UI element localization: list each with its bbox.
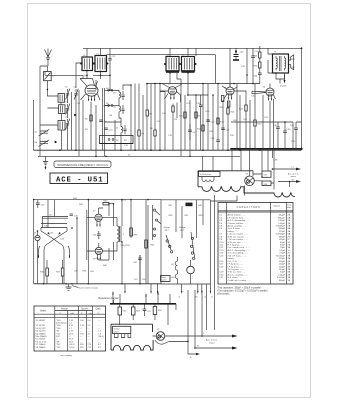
wire mid left rail — [33, 200, 35, 284]
IF frequency label box — [54, 161, 111, 168]
wire mains lead L2 — [202, 335, 232, 337]
valve V5 resistance — [156, 332, 165, 341]
svg-text:+0: +0 — [204, 297, 206, 299]
switch contacts edge set — [153, 209, 155, 211]
variable capacitor C1a — [39, 129, 50, 136]
antenna A — [45, 49, 52, 67]
power label arrow — [284, 75, 286, 81]
wire right rail — [301, 48, 303, 149]
capacitor C33 — [258, 46, 262, 84]
wire osc section verticals — [45, 63, 110, 88]
wire switch branch S4 — [105, 89, 120, 91]
wire heater bottom link — [211, 186, 245, 202]
resistance dial lamps box — [113, 326, 131, 333]
valve table frame — [34, 306, 106, 351]
IF transformer can IFT1 — [166, 57, 179, 72]
wire extra stubs — [96, 79, 181, 156]
ground chassis mid — [66, 284, 72, 291]
transformer T2 winding — [117, 226, 121, 242]
svg-text:†Two capacitors, 0.0315µF + 0.: †Two capacitors, 0.0315µF + 0.0315µF in … — [217, 289, 268, 292]
capacitor C37 box — [262, 171, 271, 177]
capacitor C20 — [206, 120, 210, 150]
svg-text:-265: -265 — [194, 297, 198, 299]
wire output loop — [99, 204, 118, 260]
resistor R6 — [154, 130, 156, 136]
capacitor C22 — [221, 128, 225, 130]
valve V5 rectifier — [245, 176, 255, 186]
wire splitter bends — [39, 243, 70, 284]
capacitor C40 — [36, 200, 40, 208]
wire top HT rail — [83, 47, 302, 49]
output transformer T1 — [273, 54, 289, 73]
resistor R23 — [245, 105, 247, 111]
wire rail x40 — [40, 66, 47, 156]
capacitor C17 — [188, 124, 192, 140]
wire panel bottom stubs — [182, 195, 215, 330]
resistance heater outline — [111, 324, 153, 350]
svg-text:mains: mains — [209, 343, 216, 345]
wire chassis thick right — [231, 148, 302, 150]
capacitor C49 — [138, 255, 142, 284]
trimmer C3 — [66, 89, 70, 100]
mid stub arrows — [124, 291, 158, 294]
aerial coil pack box 1 — [58, 94, 65, 103]
valve V8 output bottom — [95, 247, 102, 254]
resistor R8 — [172, 106, 174, 112]
mid coil L11 — [119, 104, 125, 114]
valve V2 pins — [165, 94, 175, 100]
valve table rows — [36, 320, 104, 349]
svg-text:+0: +0 — [178, 297, 180, 299]
resistor R7 — [138, 130, 140, 136]
valve V1 pins — [81, 94, 101, 100]
resistor R10 — [184, 112, 186, 118]
wire switch bus S1 — [38, 155, 240, 157]
svg-text:C37: C37 — [264, 175, 267, 177]
mid coil L12 — [121, 124, 127, 135]
dial lamp castellation — [202, 177, 214, 182]
resistor R25 — [259, 62, 261, 68]
capacitor C18 — [196, 95, 208, 150]
svg-text:Valve: Valve — [40, 310, 47, 313]
svg-text:mains: mains — [291, 176, 296, 178]
capacitor C45 — [70, 214, 73, 216]
title box ACE U51 — [50, 173, 108, 184]
wire chassis line — [34, 149, 302, 151]
wire resistance to mains — [153, 336, 203, 344]
coil L18 — [175, 274, 177, 284]
svg-text:‡Electrolytic.: ‡Electrolytic. — [217, 292, 230, 295]
switch contacts left set — [166, 240, 168, 242]
valve V3 detector — [226, 87, 234, 95]
resistor R42 — [103, 203, 109, 205]
can side pins — [80, 63, 197, 66]
bottom bus thick — [110, 303, 176, 305]
capacitor C48 — [97, 208, 101, 247]
svg-text:Screen: Screen — [81, 308, 89, 311]
voltage test arrows — [181, 291, 211, 294]
valve V2 IF amplifier — [168, 87, 176, 95]
svg-text:ACE - U51: ACE - U51 — [56, 176, 104, 184]
svg-text:Cath.: Cath. — [96, 308, 102, 311]
capacitor block C30a dark — [186, 203, 193, 207]
svg-text:(Oscillator)1.2: (Oscillator)1.2 — [56, 322, 73, 325]
splitter cross arrows — [47, 232, 61, 235]
wire mid top rail — [34, 199, 161, 201]
splitter bend arrows — [38, 255, 70, 258]
resistor R5 — [146, 110, 148, 116]
capacitor C46 link — [41, 224, 67, 228]
aerial coil pack box 2 — [59, 105, 66, 114]
trimmer C4 — [66, 104, 70, 115]
bottom components R52 — [153, 307, 157, 315]
capacitor table footnotes — [217, 286, 268, 295]
svg-text:Connected to chassis: Connected to chassis — [79, 287, 98, 290]
wire mid column — [110, 75, 143, 150]
capacitor table rows — [219, 214, 290, 282]
node E stub — [188, 340, 196, 355]
wire L16 top — [231, 121, 278, 123]
oscillator coil can L6 — [95, 56, 107, 72]
wire HT rail mid — [45, 71, 260, 84]
capacitor C13 — [251, 53, 255, 84]
capacitor C2 box — [44, 72, 52, 81]
svg-text:A.C. or D.C.: A.C. or D.C. — [206, 339, 218, 342]
svg-text:+0: +0 — [211, 297, 213, 299]
bottom components C51 — [143, 304, 147, 316]
valve V4 pins — [269, 95, 276, 100]
capacitor C30 electrolytic — [235, 48, 237, 54]
wire switch branch S5 — [105, 105, 120, 107]
trimmer C6 — [68, 89, 79, 151]
can bottom dots — [86, 70, 101, 73]
switch section box — [100, 136, 134, 144]
wire section divider — [247, 48, 253, 83]
resistor R14 — [227, 108, 229, 114]
svg-text:*Two capacitors, 350µF + 3: *Two capacitors, 350µF + 350µF in parall… — [217, 286, 262, 289]
wire V4 surround — [246, 84, 274, 149]
capacitor C12 — [108, 48, 112, 75]
svg-text:switch: switch — [162, 279, 167, 282]
valve V3 pins — [224, 94, 232, 99]
svg-text:A.C. or D.C.: A.C. or D.C. — [288, 173, 299, 176]
wire mains lead N — [278, 182, 296, 188]
valve V3b triode — [35, 235, 40, 240]
trimmer C5 — [66, 119, 70, 130]
wire phase splitter cross — [41, 228, 67, 244]
resistor R37 — [61, 268, 64, 276]
wire mid bottom stubs — [125, 284, 158, 292]
svg-text:lamps: lamps — [114, 331, 119, 333]
wire bottom links — [168, 304, 176, 325]
wire det section — [107, 48, 224, 150]
lamp component — [187, 266, 195, 274]
capacitor C35 — [276, 122, 285, 149]
valve V7 pins — [97, 221, 100, 226]
wire mid bottom bus — [34, 283, 161, 285]
mid coil L10 — [119, 90, 125, 100]
wire mains verticals — [188, 290, 202, 348]
switch contacts right set — [191, 237, 193, 239]
capacitor C9 — [99, 120, 103, 122]
svg-text:CAPACITORS: CAPACITORS — [237, 205, 261, 209]
wire left rail x33 — [33, 100, 35, 150]
wire heater to right — [253, 174, 274, 183]
svg-text:adj.2: adj.2 — [180, 229, 184, 231]
wire det out couplers — [185, 95, 196, 156]
svg-text:adj.1: adj.1 — [165, 229, 169, 231]
bottom components R51 — [132, 307, 136, 315]
aerial coil pack box 3 — [58, 121, 65, 131]
svg-text:2 watts: 2 watts — [280, 85, 287, 88]
oscillator coil can L5 — [82, 57, 93, 71]
capacitor C25 — [294, 122, 301, 149]
resistor R36 — [46, 268, 49, 276]
svg-text:INTERMEDIATE FREQUENCY 470 KC/: INTERMEDIATE FREQUENCY 470 KC/S — [57, 163, 108, 167]
wire coil links — [105, 106, 122, 123]
valve V8 pins — [97, 254, 100, 259]
wire coil feeds — [40, 89, 83, 156]
svg-text:To Dial: To Dial — [114, 329, 120, 331]
svg-text:R32a: R32a — [199, 215, 205, 217]
junction blobs coilpack — [74, 114, 76, 116]
wire IF can feeds — [170, 48, 188, 95]
capacitor C21 — [216, 140, 220, 150]
speaker — [289, 55, 294, 70]
ground chassis symbol — [43, 156, 48, 168]
wire V3 surround — [230, 48, 246, 150]
capacitor table frame — [218, 203, 293, 285]
wire mid tubes bus — [86, 210, 88, 260]
switch panel inner verticals — [176, 200, 203, 238]
svg-text:Values: Values — [274, 206, 281, 208]
valve V7 output top — [95, 214, 102, 221]
wire mains lead N2 — [195, 347, 232, 349]
resistor R38 box — [262, 181, 271, 186]
coil L17 — [175, 257, 177, 274]
bottom up-arrows — [113, 292, 170, 304]
wire mains lead L — [273, 168, 297, 170]
resistor R12 — [202, 125, 204, 131]
heater chain outline — [198, 171, 295, 197]
resistance castellation small — [115, 334, 131, 338]
wire misc verticals left-mid — [91, 88, 115, 156]
resistor R2 — [90, 115, 92, 121]
capacitor C36 — [283, 122, 293, 149]
switch panel frame — [161, 200, 211, 284]
resistor R13 — [217, 118, 219, 124]
wire around V2 — [147, 84, 165, 151]
resistor R16 — [222, 96, 224, 102]
IF transformer can IFT2 — [182, 57, 195, 72]
wire heater drop verticals — [203, 149, 274, 190]
mains switch box — [161, 276, 171, 282]
resistor R39 — [130, 228, 133, 236]
svg-text:To Dial lamps: To Dial lamps — [200, 174, 211, 176]
capacitor C10 — [104, 128, 108, 130]
svg-text:Resistance diagram: Resistance diagram — [99, 297, 119, 300]
svg-text:R38: R38 — [264, 184, 267, 186]
resistor R43 — [145, 240, 148, 248]
valve V1 frequency changer — [85, 85, 98, 96]
svg-text:Anode: Anode — [61, 308, 68, 311]
dial lamps box — [199, 172, 221, 177]
resistor R22 — [254, 120, 256, 126]
bottom components R50 — [118, 307, 122, 315]
svg-text:* adj. reading: * adj. reading — [59, 354, 73, 357]
valve V4 output — [266, 88, 274, 96]
coil box L17a — [42, 217, 68, 229]
wire output section — [268, 46, 289, 84]
resistor R24 — [259, 52, 261, 58]
resistor R11 — [195, 112, 197, 118]
wire driver verticals — [48, 200, 88, 284]
variable capacitor C1b — [39, 140, 50, 147]
wire mid right links — [122, 200, 148, 284]
svg-text:tions: tions — [287, 206, 291, 209]
